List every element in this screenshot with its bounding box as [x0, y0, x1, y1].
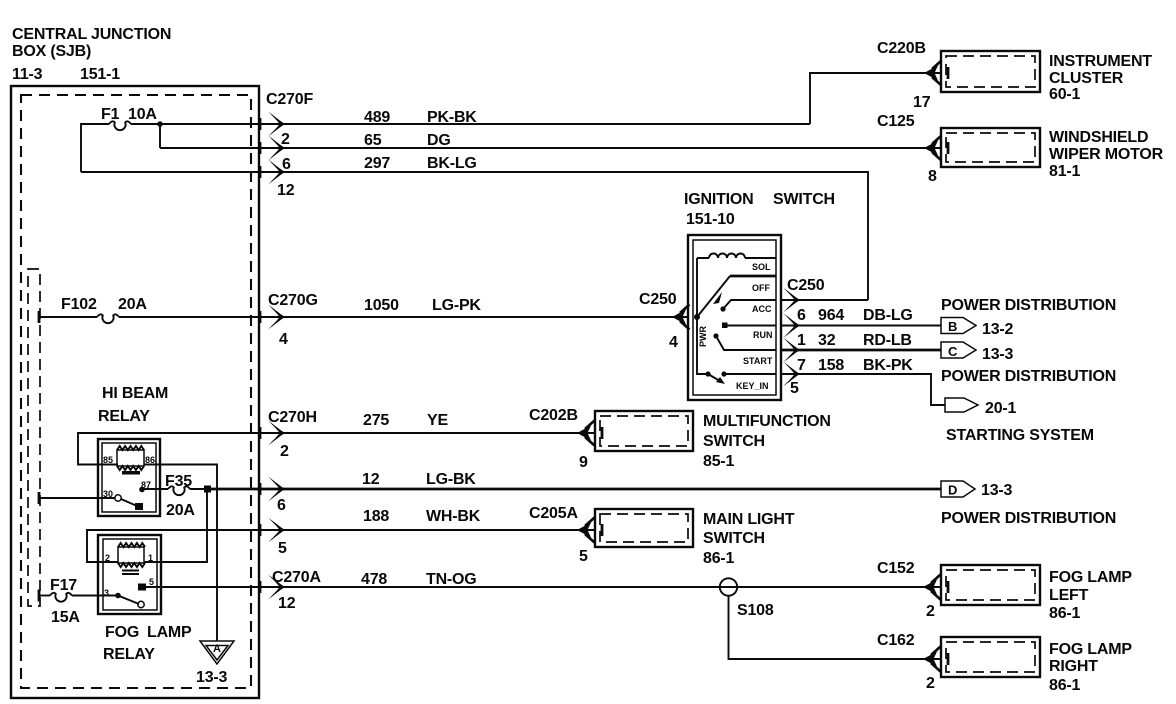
svg-text:C250: C250 — [787, 277, 825, 294]
wire 478 TN-OG — [146, 571, 941, 588]
svg-text:WIPER MOTOR: WIPER MOTOR — [1049, 146, 1164, 163]
svg-text:6: 6 — [797, 307, 806, 324]
svg-text:F1: F1 — [101, 106, 120, 123]
hi beam relay label — [98, 385, 168, 425]
hi beam relay coil — [103, 446, 155, 475]
svg-text:IGNITION: IGNITION — [684, 191, 754, 208]
connector C270H label — [268, 409, 317, 460]
svg-text:11-3: 11-3 — [12, 66, 43, 83]
off-page connector B — [941, 318, 1014, 339]
hi beam relay box — [98, 439, 160, 516]
power distribution label top — [941, 297, 1116, 314]
svg-text:2: 2 — [281, 131, 290, 148]
svg-text:DB-LG: DB-LG — [863, 307, 913, 324]
svg-text:YE: YE — [427, 412, 448, 429]
node junction F35 output — [204, 486, 211, 493]
connector C162 label — [877, 632, 935, 692]
svg-text:PK-BK: PK-BK — [427, 109, 477, 126]
svg-text:C125: C125 — [877, 113, 915, 130]
fog lamp left box — [941, 565, 1040, 605]
svg-text:13-3: 13-3 — [982, 346, 1014, 363]
starting system label — [946, 427, 1094, 444]
svg-text:60-1: 60-1 — [1049, 86, 1081, 103]
off-page connector C — [941, 342, 1014, 363]
connector C270 pin 6 arrow — [259, 477, 286, 515]
multifunction switch label — [703, 413, 831, 470]
fuse F102 20A — [38, 296, 148, 323]
connector C270A pin 12 arrow — [259, 575, 285, 600]
power distribution label D — [941, 510, 1116, 527]
ignition switch position labels — [698, 262, 773, 391]
svg-text:86-1: 86-1 — [1049, 605, 1081, 622]
svg-text:RELAY: RELAY — [98, 408, 150, 425]
svg-text:LEFT: LEFT — [1049, 587, 1089, 604]
svg-text:297: 297 — [364, 155, 390, 172]
svg-text:13-3: 13-3 — [196, 669, 228, 686]
svg-text:C152: C152 — [877, 560, 915, 577]
svg-text:C205A: C205A — [529, 505, 578, 522]
svg-text:5: 5 — [278, 540, 287, 557]
wire hi beam 87 to fuse F35 — [144, 488, 168, 490]
connector C162 arrow — [923, 647, 941, 672]
svg-text:6: 6 — [277, 497, 286, 514]
power distribution label bottom — [941, 368, 1116, 385]
splice S108 — [720, 578, 774, 619]
svg-text:HI BEAM: HI BEAM — [102, 385, 168, 402]
svg-text:964: 964 — [818, 307, 844, 324]
wire 188 WH-BK — [87, 508, 595, 562]
fog lamp relay contact — [104, 577, 154, 608]
connector C270F pin 6 arrow — [259, 136, 285, 161]
windshield wiper motor box — [941, 128, 1040, 167]
svg-text:86-1: 86-1 — [1049, 677, 1081, 694]
fog lamp left label — [1049, 569, 1132, 622]
svg-text:OFF: OFF — [752, 283, 770, 293]
svg-text:D: D — [948, 483, 957, 498]
connector C250 run output arrow — [783, 313, 800, 338]
svg-text:85-1: 85-1 — [703, 453, 735, 470]
connector C250 ACC output arrow — [783, 288, 800, 313]
svg-text:B: B — [948, 319, 957, 334]
svg-text:LAMP: LAMP — [147, 624, 192, 641]
connector C270G pin 4 arrow — [259, 305, 285, 330]
connector C250 right label — [787, 277, 825, 397]
connector C205A label — [529, 505, 588, 565]
svg-text:WH-BK: WH-BK — [426, 508, 481, 525]
wire F1 feed — [81, 124, 810, 172]
wire 65 DG — [160, 132, 941, 149]
wire fog relay 3 feed — [39, 595, 116, 597]
svg-text:SOL: SOL — [752, 262, 771, 272]
svg-text:5: 5 — [790, 380, 799, 397]
svg-text:FOG LAMP: FOG LAMP — [1049, 569, 1132, 586]
connector C202B label — [529, 407, 588, 471]
svg-text:LG-PK: LG-PK — [432, 297, 481, 314]
svg-text:C162: C162 — [877, 632, 915, 649]
svg-text:5: 5 — [149, 577, 154, 587]
ignition switch box — [688, 235, 781, 400]
hi beam relay contact — [103, 480, 151, 510]
svg-text:STARTING SYSTEM: STARTING SYSTEM — [946, 427, 1094, 444]
wire hi beam relay 30 feed — [38, 492, 115, 504]
svg-text:POWER DISTRIBUTION: POWER DISTRIBUTION — [941, 368, 1116, 385]
svg-text:12: 12 — [362, 471, 380, 488]
svg-text:ACC: ACC — [752, 304, 772, 314]
svg-text:RUN: RUN — [753, 330, 773, 340]
svg-text:BK-PK: BK-PK — [863, 357, 913, 374]
connector C250 key-in output arrow — [783, 362, 800, 387]
svg-text:FOG: FOG — [105, 624, 139, 641]
connector C220B label — [877, 40, 931, 111]
svg-text:489: 489 — [364, 109, 390, 126]
main light switch label — [703, 511, 795, 567]
svg-text:4: 4 — [669, 334, 678, 351]
svg-text:SWITCH: SWITCH — [773, 191, 835, 208]
wire 964 DB-LG — [781, 307, 941, 326]
svg-text:C: C — [948, 344, 958, 359]
instrument cluster box — [941, 51, 1040, 92]
off-page connector D — [941, 481, 1013, 499]
off-page connector 20-1 — [945, 398, 1017, 417]
svg-text:151-1: 151-1 — [80, 66, 120, 83]
svg-text:12: 12 — [278, 595, 296, 612]
svg-text:SWITCH: SWITCH — [703, 433, 765, 450]
ignition switch internals — [694, 254, 776, 385]
svg-text:13-3: 13-3 — [981, 482, 1013, 499]
svg-text:13-2: 13-2 — [982, 321, 1014, 338]
svg-text:6: 6 — [282, 156, 291, 173]
svg-text:20-1: 20-1 — [985, 400, 1017, 417]
svg-text:2: 2 — [926, 675, 935, 692]
svg-text:81-1: 81-1 — [1049, 163, 1081, 180]
svg-text:C250: C250 — [639, 291, 677, 308]
svg-text:DG: DG — [427, 132, 451, 149]
svg-text:RELAY: RELAY — [103, 646, 155, 663]
svg-text:65: 65 — [364, 132, 382, 149]
windshield wiper motor label — [1049, 129, 1164, 180]
central junction box dashed border — [21, 95, 251, 688]
connector C152 arrow — [923, 575, 941, 600]
svg-text:17: 17 — [913, 94, 931, 111]
svg-text:INSTRUMENT: INSTRUMENT — [1049, 53, 1152, 70]
svg-text:275: 275 — [363, 412, 389, 429]
svg-text:8: 8 — [928, 168, 937, 185]
svg-text:S108: S108 — [737, 602, 774, 619]
wire 275 YE — [363, 412, 448, 429]
svg-text:12: 12 — [277, 182, 295, 199]
fog lamp right box — [941, 637, 1040, 677]
svg-text:PWR: PWR — [698, 326, 708, 347]
connector C125 label — [877, 113, 937, 185]
svg-text:KEY_IN: KEY_IN — [736, 381, 769, 391]
svg-text:RD-LB: RD-LB — [863, 332, 912, 349]
wire 489 PK-BK — [364, 73, 941, 126]
ground reference A — [196, 641, 234, 686]
wire 158 BK-PK — [781, 357, 945, 405]
node junction at F1 output — [157, 121, 163, 127]
svg-text:7: 7 — [797, 357, 806, 374]
connector C152 label — [877, 560, 935, 620]
fog lamp relay box — [98, 535, 161, 614]
connector C270F label — [266, 91, 313, 199]
svg-text:10A: 10A — [128, 106, 157, 123]
svg-text:4: 4 — [279, 331, 288, 348]
svg-text:TN-OG: TN-OG — [426, 571, 477, 588]
svg-text:POWER DISTRIBUTION: POWER DISTRIBUTION — [941, 297, 1116, 314]
central junction box label — [12, 26, 171, 83]
connector C202B arrow — [577, 421, 595, 446]
multifunction switch box — [595, 411, 693, 451]
fuse bus bar — [28, 269, 40, 606]
wire hi beam relay 85 feed — [78, 433, 595, 465]
svg-text:85: 85 — [103, 455, 113, 465]
svg-text:1: 1 — [797, 332, 806, 349]
wire fog relay coil 1 feed — [144, 489, 207, 562]
svg-text:FOG LAMP: FOG LAMP — [1049, 641, 1132, 658]
svg-text:RIGHT: RIGHT — [1049, 658, 1098, 675]
svg-text:C270H: C270H — [268, 409, 317, 426]
wire S108 to fog lamp right — [729, 596, 942, 660]
svg-text:C220B: C220B — [877, 40, 926, 57]
svg-text:9: 9 — [579, 454, 588, 471]
connector C250 start output arrow — [783, 338, 800, 363]
svg-text:LG-BK: LG-BK — [426, 471, 476, 488]
fog lamp right label — [1049, 641, 1132, 694]
fog lamp relay coil — [105, 543, 153, 574]
connector C250 pin 4 arrow — [672, 305, 690, 330]
wire 32 RD-LB — [781, 332, 941, 350]
connector C270A label — [272, 569, 321, 612]
svg-text:BOX (SJB): BOX (SJB) — [12, 43, 91, 60]
wire ignition ACC feed — [781, 299, 868, 301]
svg-text:188: 188 — [363, 508, 389, 525]
fog lamp relay label — [103, 624, 192, 663]
svg-text:2: 2 — [926, 603, 935, 620]
wire 297 BK-LG — [81, 155, 868, 300]
svg-text:F102: F102 — [61, 296, 97, 313]
svg-text:POWER DISTRIBUTION: POWER DISTRIBUTION — [941, 510, 1116, 527]
svg-text:F17: F17 — [50, 577, 77, 594]
svg-text:C270G: C270G — [268, 292, 318, 309]
connector C270H pin 2 arrow — [259, 421, 285, 446]
connector C205A arrow — [577, 518, 595, 543]
svg-text:MAIN LIGHT: MAIN LIGHT — [703, 511, 795, 528]
svg-text:158: 158 — [818, 357, 844, 374]
wire 1050 LG-PK — [39, 297, 688, 317]
svg-text:MULTIFUNCTION: MULTIFUNCTION — [703, 413, 831, 430]
svg-text:20A: 20A — [166, 502, 195, 519]
fuse F35 20A — [165, 473, 195, 519]
svg-text:CENTRAL JUNCTION: CENTRAL JUNCTION — [12, 26, 171, 43]
connector C270F pin 12 arrow — [259, 160, 285, 185]
svg-text:2: 2 — [280, 443, 289, 460]
svg-text:C270F: C270F — [266, 91, 313, 108]
svg-text:32: 32 — [818, 332, 836, 349]
connector C250 left label — [639, 291, 678, 351]
connector C270F pin 2 arrow — [259, 112, 285, 137]
wire 12 LG-BK — [190, 471, 941, 489]
svg-text:C202B: C202B — [529, 407, 578, 424]
svg-text:15A: 15A — [51, 609, 80, 626]
connector C270G label — [268, 292, 318, 348]
svg-text:BK-LG: BK-LG — [427, 155, 477, 172]
main light switch box — [595, 509, 693, 547]
svg-text:START: START — [743, 356, 773, 366]
fuse F1 10A — [101, 106, 157, 130]
ignition switch label — [684, 191, 835, 228]
svg-text:SWITCH: SWITCH — [703, 530, 765, 547]
svg-text:86: 86 — [145, 455, 155, 465]
svg-text:2: 2 — [105, 553, 110, 563]
svg-text:478: 478 — [361, 571, 387, 588]
connector C220B arrow — [924, 61, 942, 86]
central junction box outline — [11, 86, 259, 698]
wire branch to pin 6 — [159, 124, 161, 148]
svg-text:86-1: 86-1 — [703, 550, 735, 567]
wire hi beam relay 86 to ground — [144, 465, 217, 642]
svg-text:151-10: 151-10 — [686, 211, 735, 228]
connector C270 pin 5 arrow — [259, 518, 287, 558]
connector C125 arrow — [924, 136, 942, 161]
svg-text:5: 5 — [579, 548, 588, 565]
svg-text:CLUSTER: CLUSTER — [1049, 70, 1124, 87]
instrument cluster label — [1049, 53, 1152, 103]
svg-text:1050: 1050 — [364, 297, 399, 314]
svg-text:3: 3 — [104, 588, 109, 598]
svg-text:WINDSHIELD: WINDSHIELD — [1049, 129, 1148, 146]
svg-text:20A: 20A — [118, 296, 147, 313]
svg-text:A: A — [213, 643, 221, 655]
fuse F17 15A — [38, 577, 81, 626]
